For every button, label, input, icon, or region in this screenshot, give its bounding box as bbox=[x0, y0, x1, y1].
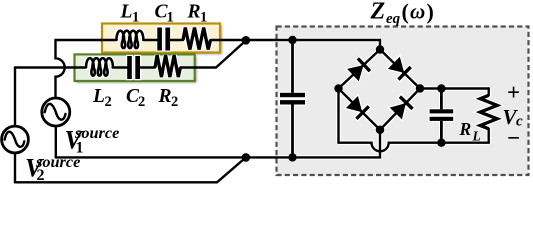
capacitor input shunt: top stem bbox=[291, 40, 294, 93]
capacitor input shunt: plates bbox=[280, 93, 305, 105]
wire positive rail bbox=[420, 87, 489, 89]
svg-text:Z: Z bbox=[370, 0, 386, 25]
wire bridge bottom to rail bbox=[379, 130, 381, 158]
capacitor input shunt: bottom stem bbox=[291, 105, 294, 158]
resistor RL bbox=[480, 95, 497, 129]
label R2 bbox=[158, 86, 179, 110]
wire diagonal V2 to bottom node bbox=[217, 157, 246, 182]
svg-text:ω: ω bbox=[410, 0, 425, 24]
label RL bbox=[459, 119, 481, 144]
svg-text:R: R bbox=[459, 119, 472, 139]
label C1 bbox=[155, 2, 174, 26]
label R1 bbox=[187, 2, 208, 26]
resistor R2 bbox=[155, 55, 180, 77]
wire bottom rail bbox=[56, 156, 380, 158]
highlight box branch 1 (yellow) bbox=[104, 25, 222, 54]
wire bridge left vertical down bbox=[337, 89, 339, 143]
wire RL bottom corner bbox=[488, 129, 490, 143]
wire bridge edge top-left bbox=[339, 50, 381, 89]
capacitor output: plates bbox=[430, 109, 454, 121]
white outline halo layer under components bbox=[86, 26, 497, 157]
node bridge bottom bbox=[376, 126, 384, 134]
node bottom junction bbox=[242, 153, 251, 162]
svg-text:R: R bbox=[158, 86, 172, 107]
wire V1 vertical with hop over branch-2 wire bbox=[56, 40, 65, 98]
diode D4 bottom-right bbox=[389, 97, 412, 120]
wire C1 to R1 bbox=[170, 39, 183, 41]
wire bridge edge top-right bbox=[380, 50, 420, 89]
wire negative rail with hop bbox=[339, 143, 489, 152]
label L2 bbox=[92, 86, 112, 110]
svg-text:2: 2 bbox=[138, 94, 145, 110]
svg-text:L: L bbox=[472, 129, 481, 144]
svg-text:1: 1 bbox=[200, 10, 207, 26]
wire branch-2 horizontal bbox=[15, 66, 86, 68]
wire bridge edge bottom-left bbox=[339, 89, 381, 130]
wire diagonal branch-2 to top node bbox=[216, 41, 246, 68]
svg-text:1: 1 bbox=[167, 10, 174, 26]
resistor R1 bbox=[183, 28, 211, 50]
wire bridge edge bottom-right bbox=[380, 89, 420, 130]
capacitor C1 bbox=[157, 28, 170, 51]
wire L2 to C2 bbox=[113, 66, 128, 68]
node output bottom bbox=[437, 139, 445, 147]
svg-text:2: 2 bbox=[105, 94, 112, 110]
source V2 bbox=[2, 126, 29, 153]
node bridge right bbox=[416, 84, 424, 92]
wire top rail corner into bridge bbox=[379, 40, 381, 50]
svg-text:L: L bbox=[92, 86, 105, 107]
wire V2 bottom horizontal bbox=[15, 181, 217, 183]
inductor L2 bbox=[86, 58, 113, 75]
svg-text:−: − bbox=[507, 126, 520, 151]
capacitor output: top stem bbox=[440, 89, 443, 110]
label C2 bbox=[126, 86, 145, 110]
svg-text:+: + bbox=[507, 80, 520, 105]
wire RL top corner bbox=[488, 89, 490, 96]
label Vc bbox=[503, 105, 524, 130]
diode D3 bottom-left bbox=[346, 96, 369, 119]
wire top rail right segment bbox=[211, 39, 381, 41]
svg-text:R: R bbox=[187, 2, 201, 23]
svg-text:(: ( bbox=[402, 0, 409, 24]
node bridge top bbox=[376, 45, 384, 53]
svg-text:1: 1 bbox=[132, 10, 139, 26]
diode D2 top-right bbox=[388, 56, 411, 79]
wire top rail left segment bbox=[56, 39, 117, 41]
label L1 bbox=[120, 2, 140, 26]
node output top bbox=[437, 84, 445, 92]
svg-text:eq: eq bbox=[386, 11, 401, 27]
label V1 source bbox=[65, 123, 120, 157]
highlight box branch 2 (green) bbox=[76, 56, 196, 83]
capacitor C2 bbox=[127, 56, 140, 79]
source V1 bbox=[42, 98, 70, 126]
inductor L1 bbox=[116, 31, 143, 48]
wire V2 vertical up bbox=[14, 68, 16, 127]
svg-text:): ) bbox=[427, 0, 434, 24]
svg-text:L: L bbox=[120, 2, 133, 23]
wire L1 to C1 bbox=[143, 39, 157, 41]
node input bottom bbox=[288, 153, 296, 161]
capacitor output: bottom stem bbox=[440, 121, 443, 143]
label Zeq(omega) bbox=[370, 0, 434, 27]
wire V1 bottom vertical bbox=[55, 126, 57, 157]
node input top bbox=[288, 36, 296, 44]
wire V2 bottom vertical bbox=[14, 153, 16, 182]
diode D1 top-left bbox=[347, 58, 370, 81]
wire C2 to R2 bbox=[140, 66, 155, 68]
node bridge left bbox=[334, 84, 342, 92]
label V2 source bbox=[25, 152, 80, 184]
node top junction bbox=[242, 36, 251, 45]
svg-text:2: 2 bbox=[171, 94, 178, 110]
wire branch-2 to diagonal bbox=[180, 66, 216, 68]
equivalent impedance dashed box Zeq bbox=[277, 27, 529, 176]
